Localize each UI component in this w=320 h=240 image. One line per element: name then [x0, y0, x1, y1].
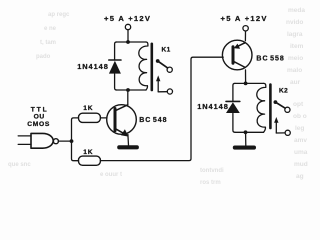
svg-text:malo: malo — [287, 67, 302, 74]
wire R1 to Q1 base — [100, 117, 106, 119]
Q1 emitter inner diagonal with arrow — [116, 129, 125, 134]
bleed-through ghost text faint top-left — [8, 12, 224, 186]
node E (junction bottom of relay K2 coil) — [244, 130, 248, 134]
svg-text:TTL: TTL — [31, 106, 49, 113]
NAND gate U1 output bubble — [53, 139, 58, 144]
transistor Q2 BC558 (PNP) circle — [222, 40, 252, 70]
relay K1 core bar — [151, 44, 154, 90]
NAND input wire 1 — [18, 135, 31, 137]
svg-text:ap regc: ap regc — [48, 12, 70, 18]
relay2 top rail — [235, 82, 264, 84]
svg-text:item: item — [290, 43, 304, 50]
wire T2 to Q2 emitter — [244, 31, 246, 41]
contact K1 NO terminal circle — [167, 67, 172, 72]
svg-text:1K: 1K — [83, 149, 93, 156]
transistor Q1 BC548 (NPN) circle — [107, 105, 137, 135]
relay K2 core bar — [269, 85, 272, 129]
relay2 left branch vertical (diode branch) — [233, 83, 235, 132]
node C (junction dot after gate) — [70, 139, 74, 143]
svg-text:CMOS: CMOS — [27, 121, 50, 128]
wire gate output to node C — [58, 140, 70, 142]
svg-text:meio: meio — [288, 55, 303, 62]
node D (junction top of relay K2 coil) — [244, 82, 248, 86]
contact K2 bottom wire — [276, 132, 285, 134]
contact K1 actuator arrow — [157, 81, 159, 92]
relay K2 coil (three left-bulging loops) — [257, 83, 266, 132]
svg-text:ob o: ob o — [293, 113, 307, 120]
svg-text:1N4148: 1N4148 — [197, 102, 229, 111]
wire Q2 collector down to node D — [245, 70, 247, 82]
wire node E to ground — [245, 134, 247, 145]
ground bar (relay K2) — [233, 146, 256, 150]
diode D1 1N4148 (cathode bar + filled triangle, pointing up) — [109, 59, 121, 61]
contact K1 bottom wire — [158, 91, 167, 93]
svg-text:leg: leg — [295, 125, 304, 132]
node B (junction dot bottom of relay K1 coil) — [126, 88, 130, 92]
Q2 collector inner diagonal — [234, 61, 245, 67]
svg-text:+5 A +12V: +5 A +12V — [221, 14, 268, 23]
Q1 collector inner diagonal — [116, 105, 128, 111]
Q2 emitter inner diagonal with arrow to base — [238, 43, 245, 47]
node A (junction dot top of relay K1 coil) — [126, 40, 130, 44]
wire R2 to Q2 base (long run right then up) — [100, 57, 223, 160]
wire node B to Q1 collector — [127, 92, 129, 105]
NAND gate U1 body — [31, 133, 53, 148]
wire node C up to R1 — [72, 118, 79, 141]
Q1 emitter wire to ground — [127, 135, 130, 146]
svg-text:opt: opt — [293, 101, 304, 108]
svg-text:t, tam: t, tam — [40, 40, 56, 46]
diode D2 1N4148 (cathode bar + filled triangle, pointing up) — [226, 100, 240, 102]
svg-text:mud: mud — [294, 161, 308, 168]
wire relay1 left branch (diode branch vertical) — [115, 42, 117, 90]
wire relay1 bottom rail — [117, 89, 146, 91]
svg-text:meda: meda — [288, 7, 305, 14]
contact K2 pivot dot — [274, 100, 278, 104]
svg-text:OU: OU — [34, 113, 45, 120]
svg-text:lagra: lagra — [287, 31, 303, 38]
NAND input wire 2 — [18, 143, 31, 145]
wire node C down to R2 — [72, 141, 79, 161]
svg-text:BC 548: BC 548 — [139, 117, 167, 124]
svg-text:ros trm: ros trm — [200, 180, 221, 186]
relay2 bottom rail — [235, 131, 264, 133]
svg-text:amv: amv — [294, 137, 307, 144]
svg-text:que snc: que snc — [8, 162, 31, 168]
svg-text:e ne: e ne — [44, 26, 57, 32]
Q2 base bar — [232, 47, 235, 63]
contact K2 actuator arrow — [275, 122, 277, 133]
Q1 base bar — [114, 109, 117, 131]
svg-text:nvido: nvido — [286, 19, 303, 26]
terminal T2 (open circle, right +V) — [243, 26, 248, 31]
contact K1 lower terminal circle — [167, 89, 172, 94]
svg-text:pado: pado — [36, 54, 51, 60]
svg-text:tontvndi: tontvndi — [200, 168, 224, 174]
resistor R1 1K (to Q1 base) — [79, 113, 101, 122]
svg-text:BC 558: BC 558 — [256, 55, 284, 62]
contact K2 NO terminal circle — [285, 107, 290, 112]
svg-text:+5 A +12V: +5 A +12V — [104, 14, 151, 23]
svg-text:1K: 1K — [83, 105, 93, 112]
bleed-through ghost text right column — [286, 7, 308, 180]
contact K2 lower terminal circle — [285, 130, 290, 135]
wire T1 to node A — [127, 30, 129, 42]
terminal T1 (open circle, left +V) — [125, 24, 130, 29]
svg-text:K1: K1 — [162, 46, 171, 53]
svg-text:K2: K2 — [279, 87, 288, 94]
svg-text:e ouur t: e ouur t — [100, 172, 122, 178]
svg-text:1N4148: 1N4148 — [77, 62, 109, 71]
relay K1 coil (three left-bulging loops) — [139, 42, 148, 90]
label TTL OU CMOS — [27, 106, 50, 128]
resistor R2 1K (to Q2 base) — [79, 156, 101, 165]
svg-text:uma: uma — [294, 149, 308, 156]
svg-text:ag: ag — [296, 173, 304, 180]
wire relay1 top rail — [117, 41, 146, 43]
ground bar (Q1 emitter) — [117, 145, 139, 149]
svg-text:aur: aur — [290, 79, 301, 86]
contact K1 armature — [158, 61, 168, 68]
contact K1 pivot dot — [156, 59, 160, 63]
contact K2 armature — [275, 102, 285, 108]
